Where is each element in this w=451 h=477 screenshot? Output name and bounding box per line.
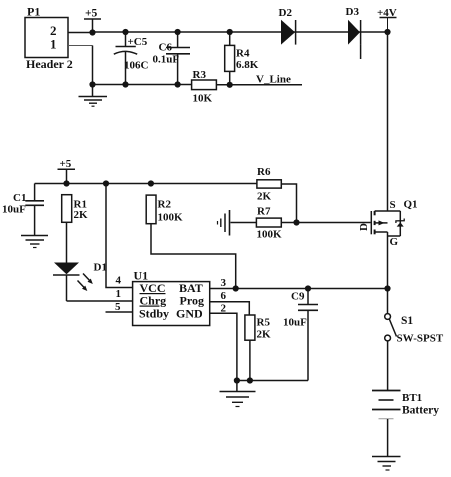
power +4V <box>377 7 397 32</box>
wire pin4 branch <box>106 184 133 288</box>
svg-text:Battery: Battery <box>402 405 439 417</box>
node junction R2-BAT <box>233 285 239 291</box>
resistor R7 <box>256 206 282 241</box>
capacitor C5 <box>114 32 149 85</box>
svg-text:6.8K: 6.8K <box>236 59 259 71</box>
svg-text:Q1: Q1 <box>404 199 418 211</box>
svg-text:R5: R5 <box>257 317 271 329</box>
svg-text:Header 2: Header 2 <box>26 57 73 71</box>
svg-text:2K: 2K <box>74 209 89 221</box>
wire D1 to U1 pin1 <box>67 300 133 302</box>
node junction BAT right <box>384 285 390 291</box>
svg-text:+C5: +C5 <box>128 36 148 48</box>
wire U1 pin5 stub <box>106 311 133 313</box>
svg-text:10uF: 10uF <box>2 204 26 216</box>
node junction +4V <box>384 29 390 35</box>
svg-text:R7: R7 <box>257 206 271 218</box>
node junction pin2/+5 <box>89 29 95 35</box>
svg-text:Chrg: Chrg <box>140 294 167 308</box>
svg-text:Prog: Prog <box>180 294 204 308</box>
wire Q1 drain down <box>387 232 389 314</box>
node junction C5 bottom <box>122 81 128 87</box>
wire bottom ground rail <box>237 380 308 382</box>
svg-text:2K: 2K <box>257 191 272 203</box>
wire top rail to +4V junction <box>93 31 388 33</box>
resistor R1 <box>62 195 88 263</box>
node junction C5 top <box>122 29 128 35</box>
wire pin1 down to ground <box>92 46 94 97</box>
node junction gnd rail <box>89 81 95 87</box>
node junction C6 top <box>175 29 181 35</box>
node junction R6/R7 <box>293 219 299 225</box>
resistor R2 <box>146 195 183 224</box>
diode D2 <box>279 7 296 45</box>
power +5 (middle) <box>58 158 76 184</box>
svg-text:R6: R6 <box>257 166 271 178</box>
svg-text:D2: D2 <box>279 7 293 19</box>
svg-text:6: 6 <box>221 290 227 302</box>
resistor R6 <box>257 166 281 203</box>
ground (under C1) <box>21 236 48 248</box>
svg-text:R2: R2 <box>158 199 172 211</box>
svg-text:G: G <box>390 236 399 248</box>
battery BT1 <box>372 391 439 457</box>
node junction pin4 branch <box>103 180 109 186</box>
svg-text:C6: C6 <box>159 42 173 54</box>
wire R6 right down to gate net <box>281 184 296 223</box>
svg-text:BT1: BT1 <box>402 392 422 404</box>
wire P1 pin2 to +5 rail <box>68 32 93 34</box>
wire +5 rail middle <box>35 183 257 185</box>
wire ground rail C5 C6 R3 <box>93 84 192 86</box>
wire gnd to R7 <box>231 222 257 224</box>
svg-text:3: 3 <box>221 277 227 289</box>
capacitor C1 <box>2 184 44 236</box>
svg-text:C9: C9 <box>291 291 305 303</box>
node junction pin2 gnd <box>234 377 240 383</box>
node junction R5 gnd <box>247 377 253 383</box>
svg-text:10uF: 10uF <box>283 317 307 329</box>
wire S1 to battery <box>387 341 389 391</box>
connector P1 <box>25 5 73 72</box>
svg-text:5: 5 <box>115 301 121 313</box>
wire U1 pin6 to R5 <box>210 302 250 315</box>
svg-text:Stdby: Stdby <box>139 307 169 321</box>
wire U1 pin2 to ground rail <box>210 313 237 380</box>
svg-text:V_Line: V_Line <box>256 74 291 86</box>
svg-text:C1: C1 <box>13 192 26 204</box>
switch S1 <box>385 314 444 345</box>
node junction R4 bottom <box>227 82 233 88</box>
svg-text:1: 1 <box>116 288 122 300</box>
wire R3 to V_Line <box>216 84 302 86</box>
node junction C9 top <box>305 285 311 291</box>
IC U1 <box>115 269 227 326</box>
LED D1 <box>53 262 107 302</box>
node junction R2 top <box>148 180 154 186</box>
node junction C6 bottom <box>175 81 181 87</box>
svg-text:S: S <box>390 199 396 211</box>
svg-text:+5: +5 <box>60 158 72 170</box>
svg-text:4: 4 <box>116 275 122 287</box>
svg-text:10K: 10K <box>193 93 213 105</box>
svg-text:100K: 100K <box>158 212 184 224</box>
node junction R1 top <box>63 180 69 186</box>
svg-text:2K: 2K <box>257 329 272 341</box>
capacitor C6 <box>153 32 191 85</box>
wire U1 pin3 BAT rail <box>210 288 388 290</box>
wire R2 bottom to BAT node <box>151 224 236 289</box>
resistor R4 <box>225 32 259 85</box>
ground (rotated, left of R7) <box>218 210 230 236</box>
wire P1 pin1 <box>68 45 93 47</box>
svg-text:106C: 106C <box>124 60 149 72</box>
svg-text:0.1uF: 0.1uF <box>153 54 180 66</box>
resistor R5 <box>245 315 271 381</box>
power +5 (top) <box>84 8 101 33</box>
svg-text:S1: S1 <box>401 315 413 327</box>
ground (under U1) <box>220 381 256 407</box>
resistor R3 <box>192 69 217 105</box>
diode D3 <box>346 6 361 59</box>
svg-text:D: D <box>358 223 370 231</box>
svg-text:P1: P1 <box>27 5 40 19</box>
svg-text:+5: +5 <box>85 8 98 20</box>
svg-text:100K: 100K <box>257 229 283 241</box>
ground (under battery) <box>372 457 401 471</box>
transistor Q1 MOSFET <box>358 199 418 249</box>
svg-text:R4: R4 <box>236 48 250 60</box>
svg-text:D3: D3 <box>346 6 360 18</box>
svg-text:1: 1 <box>50 37 57 52</box>
wire R7 to Q1 gate <box>281 222 370 224</box>
capacitor C9 <box>283 289 318 381</box>
node junction R4 top <box>227 29 233 35</box>
svg-text:SW-SPST: SW-SPST <box>397 333 444 345</box>
svg-text:D1: D1 <box>94 262 107 274</box>
ground (under P1) <box>79 97 108 107</box>
wire right vertical to Q1 source <box>387 32 389 211</box>
svg-text:R3: R3 <box>193 69 207 81</box>
svg-text:GND: GND <box>176 307 203 321</box>
